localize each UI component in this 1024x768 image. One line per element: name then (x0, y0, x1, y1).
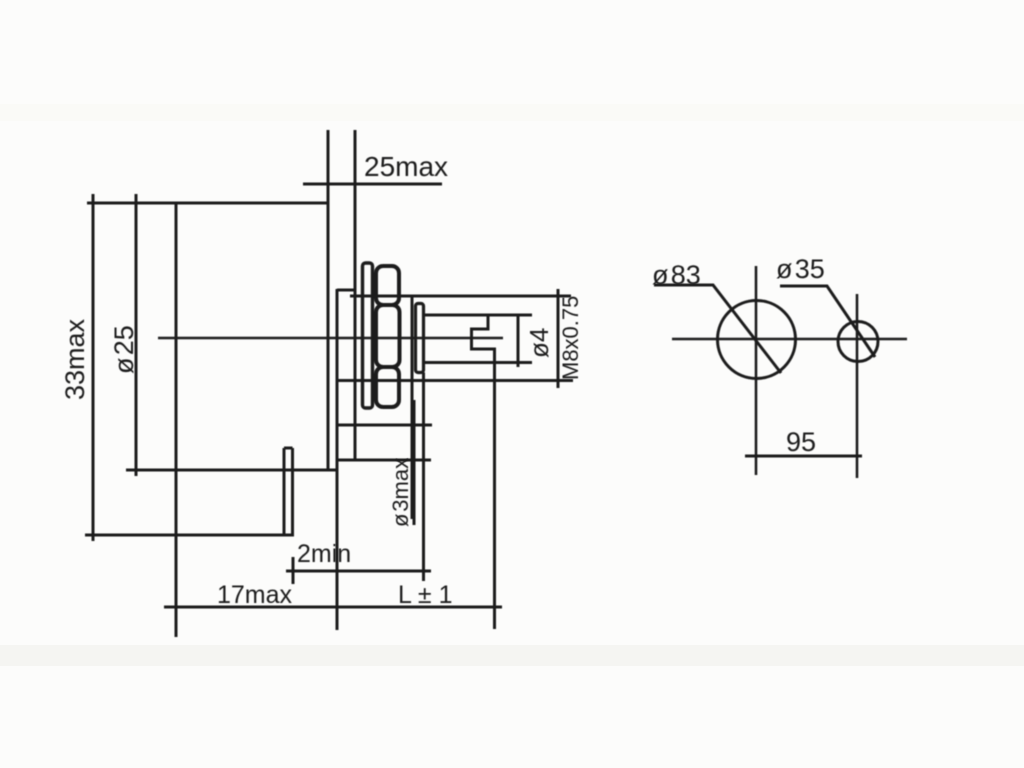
plate top (337, 289, 356, 292)
big circle dia83 (718, 301, 796, 379)
top extension line / body top (87, 202, 328, 205)
2min left tick (292, 557, 295, 584)
33max bottom extension line (85, 534, 294, 537)
svg-text:L ± 1: L ± 1 (398, 581, 453, 609)
step line y425 (336, 424, 432, 427)
tab right edge (291, 448, 294, 535)
svg-text:2min: 2min (297, 540, 351, 568)
shaft bottom (424, 361, 532, 364)
svg-text:33max: 33max (60, 318, 90, 400)
collar extension down (422, 373, 425, 582)
33max dimension line vertical (92, 194, 95, 541)
plate right edge (long vertical) (354, 130, 357, 460)
big circle vertical centerline (755, 266, 758, 475)
bushing collar front (416, 304, 424, 373)
svg-text:25max: 25max (364, 151, 448, 182)
svg-text:ø 35: ø 35 (776, 254, 825, 284)
dia35 leader (780, 286, 875, 357)
plate left edge / extension to bottom dims (336, 289, 339, 630)
nut facet middle (376, 305, 400, 367)
svg-text:ø4: ø4 (524, 328, 554, 358)
scan artifact faint row (0, 104, 1024, 121)
tab top cap (284, 447, 293, 450)
bushing rear vertical (411, 296, 414, 519)
small circle vertical centerline (856, 294, 859, 478)
95 dimension line (745, 455, 862, 458)
svg-text:95: 95 (786, 427, 816, 457)
bushing top edge (350, 295, 571, 298)
bushing bottom edge (338, 379, 573, 382)
nut facet bottom (376, 367, 399, 407)
step line y460 (337, 459, 431, 462)
svg-text:17max: 17max (217, 581, 293, 609)
washer (363, 263, 373, 408)
svg-text:ø 3max: ø 3max (388, 458, 413, 527)
shaft slot step (472, 316, 495, 629)
svg-text:ø 25: ø 25 (109, 325, 139, 374)
shaft end / dia4 dimension line (517, 315, 520, 367)
shaft top (424, 314, 532, 317)
body right edge (327, 130, 330, 470)
dia3max leader vertical (413, 400, 416, 525)
body left edge (175, 203, 178, 637)
centerline main view (158, 337, 503, 340)
bottom dimension line 17max / L (164, 606, 502, 609)
body bottom edge (126, 469, 337, 472)
nut facet top (376, 266, 399, 305)
dia83 leader (654, 285, 781, 373)
small circle dia35 (838, 322, 878, 362)
2min dimension line (286, 570, 431, 573)
svg-text:ø 83: ø 83 (652, 260, 701, 290)
right view centerline horizontal (672, 338, 907, 341)
scan artifact band (0, 645, 1024, 666)
dia25 dimension line vertical (135, 194, 138, 476)
svg-text:M8x0.75: M8x0.75 (558, 296, 583, 380)
25max dimension line (303, 183, 442, 186)
M8 dimension line vertical (557, 289, 560, 388)
tab left edge (283, 448, 286, 535)
